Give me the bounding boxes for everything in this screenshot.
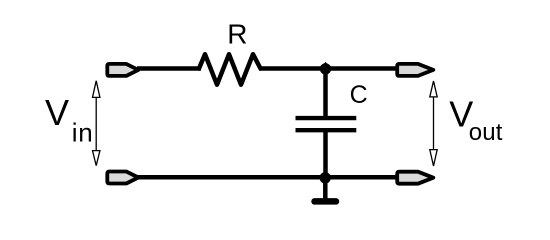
wire capacitor branch lower: [323, 130, 328, 179]
capacitor C: [296, 118, 357, 130]
ground: [315, 177, 337, 201]
wire capacitor branch upper: [323, 66, 328, 116]
label Vin: [45, 92, 94, 148]
wire top rail left: [137, 66, 201, 71]
wire top rail right: [259, 66, 399, 71]
svg-text:V: V: [45, 92, 69, 133]
svg-text:in: in: [72, 117, 94, 147]
terminal input top: [107, 64, 138, 76]
Vout measurement arrow: [430, 81, 437, 166]
label Vout: [449, 93, 503, 146]
terminal input bottom: [107, 172, 138, 184]
terminal output bottom: [397, 172, 433, 184]
wire bottom rail: [137, 175, 399, 180]
node top junction: [319, 62, 331, 76]
node bottom junction: [319, 171, 331, 185]
resistor R: [199, 54, 261, 84]
svg-text:R: R: [227, 18, 247, 49]
Vin measurement arrow: [93, 81, 100, 166]
svg-text:C: C: [350, 81, 368, 109]
svg-text:out: out: [469, 119, 503, 146]
terminal output top: [397, 64, 433, 76]
